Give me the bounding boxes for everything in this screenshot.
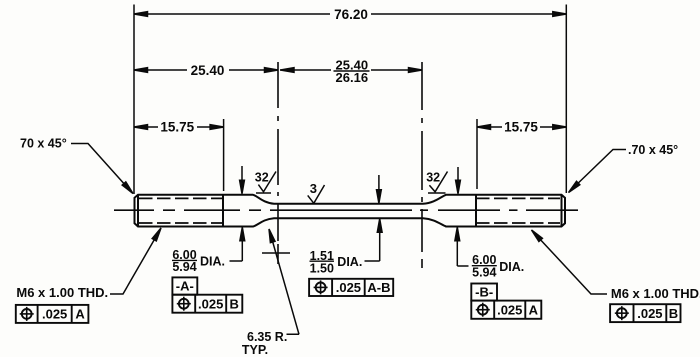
dim 15.75 right line xyxy=(477,126,502,128)
FCF rightmost .025 B xyxy=(610,304,680,322)
extension line right x567 xyxy=(565,5,567,194)
FCF under -A- .025 B xyxy=(172,295,242,313)
svg-text:.025: .025 xyxy=(497,302,522,317)
arrow 25.40M left xyxy=(281,68,295,73)
dim 25.40 left line xyxy=(134,69,187,71)
svg-text:.70 x 45°: .70 x 45° xyxy=(628,143,678,157)
svg-text:3: 3 xyxy=(310,181,317,196)
svg-text:A: A xyxy=(529,302,539,317)
svg-text:15.75: 15.75 xyxy=(160,120,194,135)
dia left down arrow xyxy=(241,166,243,182)
svg-text:32: 32 xyxy=(426,171,440,185)
arrow 15.75R left xyxy=(477,125,491,130)
left end chamfer line xyxy=(137,195,139,227)
svg-text:5.94: 5.94 xyxy=(172,260,196,274)
specimen outline xyxy=(135,195,566,227)
surface finish 32 left xyxy=(258,172,276,192)
svg-text:5.94: 5.94 xyxy=(472,266,496,280)
dim 15.75 left line xyxy=(134,126,158,128)
dia mid down arrow xyxy=(378,175,380,192)
svg-text:70 x 45°: 70 x 45° xyxy=(20,137,67,151)
svg-text:A-B: A-B xyxy=(367,280,390,295)
svg-text:-B-: -B- xyxy=(475,285,493,300)
dim 25.40/26.16 line xyxy=(280,69,331,71)
arrow 15.75L left xyxy=(134,125,148,130)
thread minor dia dashed left bottom xyxy=(139,222,223,224)
FCF mid .025 A-B xyxy=(309,279,393,296)
arrow 25.40L left xyxy=(134,68,148,73)
dia mid up arrow + elbow xyxy=(379,231,381,261)
arrow 25.40M right xyxy=(409,68,423,73)
leader 6.35R xyxy=(270,231,299,334)
svg-text:A: A xyxy=(75,307,85,322)
thread minor dia dashed left top xyxy=(139,197,223,199)
FCF left .025 A xyxy=(16,305,89,323)
thread minor dia dashed right top xyxy=(476,197,560,199)
thread minor dia dashed right bottom xyxy=(476,222,560,224)
extension line x223.6 (thread end) xyxy=(223,119,225,191)
radius center cross xyxy=(262,252,290,254)
svg-text:.025: .025 xyxy=(637,306,662,321)
leader M6 right xyxy=(534,232,608,294)
svg-text:-A-: -A- xyxy=(176,279,194,294)
gauge boundary centerline x278 xyxy=(277,62,279,264)
svg-text:26.16: 26.16 xyxy=(336,70,369,85)
svg-text:15.75: 15.75 xyxy=(504,120,538,135)
arrow 76.20 right xyxy=(553,12,567,17)
svg-text:B: B xyxy=(230,296,239,311)
svg-text:DIA.: DIA. xyxy=(200,255,225,269)
gauge boundary centerline x422 xyxy=(421,62,423,268)
arrow 25.40L right xyxy=(265,68,279,73)
FCF right .025 A xyxy=(471,301,541,319)
svg-text:1.50: 1.50 xyxy=(310,261,334,275)
svg-text:TYP.: TYP. xyxy=(242,343,268,357)
arrow 15.75L right xyxy=(210,125,224,130)
svg-text:M6 x 1.00 THD.: M6 x 1.00 THD. xyxy=(16,285,108,300)
dia left up arrow + elbow xyxy=(241,240,243,261)
leader 70x45 xyxy=(71,144,131,192)
surface finish 3 mid xyxy=(308,185,325,203)
svg-text:DIA.: DIA. xyxy=(499,260,524,274)
svg-text:76.20: 76.20 xyxy=(334,7,368,22)
dia right down arrow xyxy=(457,167,459,182)
svg-text:25.40: 25.40 xyxy=(191,63,225,78)
arrow 15.75R right xyxy=(553,125,567,130)
svg-text:.025: .025 xyxy=(42,307,67,322)
svg-text:.025: .025 xyxy=(198,296,223,311)
svg-text:DIA.: DIA. xyxy=(337,255,362,269)
surface finish 32 right xyxy=(429,172,447,192)
svg-text:B: B xyxy=(669,306,678,321)
datum -B- xyxy=(471,284,497,301)
thread end line left xyxy=(222,195,224,227)
centerline xyxy=(114,209,578,211)
svg-text:32: 32 xyxy=(255,170,269,184)
arrow 76.20 left xyxy=(134,12,148,17)
dia right up arrow + elbow xyxy=(456,241,458,266)
leader M6 left xyxy=(110,232,159,295)
datum -A- xyxy=(172,277,197,294)
extension line x477 xyxy=(476,119,478,189)
dim 76.20 line xyxy=(134,13,330,15)
thread end line right xyxy=(475,195,477,227)
svg-text:.025: .025 xyxy=(336,280,361,295)
leader .70x45 xyxy=(571,150,627,191)
right end chamfer line xyxy=(561,195,563,227)
svg-text:M6 x 1.00 THD.: M6 x 1.00 THD. xyxy=(611,286,700,301)
extension line left x134 xyxy=(133,5,135,195)
